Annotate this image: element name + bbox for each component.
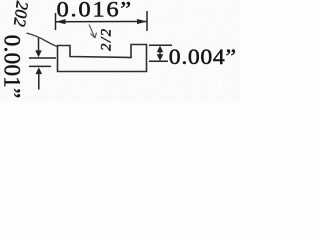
down arrowhead of 0.004"	[157, 54, 164, 61]
svg-text:202: 202	[10, 0, 32, 28]
dimension line 0.016"	[56, 21, 147, 23]
left arrowhead	[56, 19, 66, 24]
vertical double arrow shaft of 0.004"	[159, 47, 161, 60]
upper pointer down arrowhead	[35, 50, 42, 57]
svg-text:0.004”: 0.004”	[169, 45, 237, 69]
lower pointer up arrowhead	[36, 67, 43, 74]
svg-text:0.016”: 0.016”	[57, 0, 133, 22]
left extension line of 0.016"	[55, 13, 57, 30]
leader curve to left tab	[27, 33, 58, 47]
upper pointer shaft of 0.001"	[38, 38, 40, 52]
svg-text:2/2: 2/2	[99, 27, 115, 51]
bottom extension line of 0.004"	[149, 60, 168, 62]
handwritten arrow in groove	[89, 25, 95, 38]
channel cross-section outline	[58, 45, 147, 72]
bottom extension line of 0.001"	[29, 65, 51, 67]
right arrowhead	[137, 19, 147, 24]
up arrowhead of 0.004"	[157, 46, 164, 53]
paper background	[0, 0, 240, 102]
lower pointer shaft of 0.001"	[38, 74, 40, 90]
top extension line of 0.004"	[149, 44, 172, 46]
svg-text:0.001”: 0.001”	[0, 35, 25, 99]
top extension line of 0.001"	[29, 57, 56, 59]
right extension line of 0.016"	[146, 11, 148, 31]
